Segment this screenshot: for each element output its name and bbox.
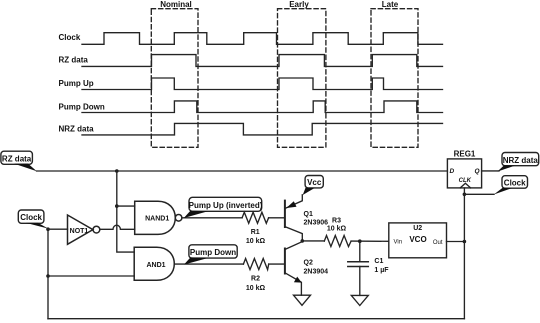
svg-text:Q2: Q2 (304, 259, 313, 266)
flip-flop REG1 box (447, 149, 481, 188)
and-gate AND1 (134, 247, 174, 280)
svg-text:2N3904: 2N3904 (304, 268, 329, 275)
svg-text:Late: Late (382, 0, 399, 9)
node junction R3/C1 (358, 239, 362, 243)
waveform Pump Down (82, 101, 443, 113)
svg-text:VCO: VCO (409, 235, 426, 244)
wire REG1 CLK vertical (463, 188, 465, 319)
node junction AND bottom branch (46, 274, 50, 278)
svg-text:C1: C1 (374, 258, 383, 265)
wire R2 to Q2 base (269, 263, 284, 265)
svg-text:RZ data: RZ data (2, 154, 32, 163)
wire R3 to VCO (351, 240, 389, 242)
svg-text:Clock: Clock (20, 213, 42, 222)
transistor Q1 2N3906 (285, 195, 328, 241)
waveform Pump Up (82, 78, 443, 90)
ground under C1 (351, 295, 368, 305)
capacitor C1 (348, 241, 389, 295)
wire feedback bottom (48, 318, 464, 320)
svg-text:2N3906: 2N3906 (304, 220, 329, 227)
svg-text:D: D (450, 168, 455, 175)
wire Clock vertical down (47, 229, 49, 319)
svg-text:Pump Up (inverted): Pump Up (inverted) (189, 201, 263, 210)
node junction RZ branch (115, 169, 119, 173)
wire NAND1 top input (117, 205, 135, 207)
callout label Vcc (303, 176, 324, 196)
nand-gate NAND1 (135, 201, 182, 234)
wire collectors to R3 (302, 240, 324, 242)
svg-text:10 kΩ: 10 kΩ (246, 238, 266, 245)
svg-text:RZ data: RZ data (59, 56, 89, 65)
svg-text:REG1: REG1 (454, 149, 476, 158)
callout label Clock (left) (18, 210, 48, 229)
callout label Pump Down (184, 245, 237, 265)
node junction collectors (301, 239, 305, 243)
svg-text:Clock: Clock (59, 33, 81, 42)
inverter NOT1 (68, 215, 100, 244)
svg-text:Vin: Vin (394, 240, 403, 246)
svg-text:NOT1: NOT1 (70, 228, 89, 235)
svg-text:AND1: AND1 (146, 262, 165, 269)
wire AND1 output to R2 (174, 263, 243, 265)
svg-text:R2: R2 (251, 275, 260, 282)
waveform NRZ data (82, 123, 443, 134)
svg-text:Q: Q (474, 168, 479, 175)
waveform Clock (82, 33, 443, 45)
wire R1 to Q1 base (269, 217, 284, 219)
svg-text:10 kΩ: 10 kΩ (246, 285, 266, 292)
wire RZ data net (horizontal to REG1 D) (37, 170, 448, 172)
wire clock tap to Clock callout (464, 193, 494, 195)
node junction clock tap (463, 193, 467, 197)
svg-text:Q1: Q1 (304, 211, 313, 218)
resistor R3 (324, 236, 351, 247)
dashed box Nominal (151, 9, 198, 148)
svg-text:R3: R3 (332, 217, 341, 224)
svg-text:1 µF: 1 µF (374, 267, 389, 274)
wire RZ vertical branch to gates (117, 171, 134, 252)
dashed box Late (371, 9, 418, 148)
node junction Clock (46, 227, 50, 231)
wire VCO out (447, 241, 465, 243)
svg-text:Clock: Clock (504, 178, 526, 187)
svg-text:Pump Down: Pump Down (59, 103, 105, 112)
svg-text:10 kΩ: 10 kΩ (327, 226, 347, 233)
node junction NAND top input (115, 204, 119, 208)
svg-text:Pump Up: Pump Up (59, 79, 94, 88)
wire NAND1 output to R1 (182, 217, 242, 219)
wire AND1 bottom input (48, 275, 134, 277)
waveform RZ data (82, 55, 443, 67)
resistor R1 (242, 212, 269, 223)
svg-text:U2: U2 (413, 225, 422, 232)
svg-text:NRZ data: NRZ data (59, 125, 95, 134)
svg-text:R1: R1 (251, 229, 260, 236)
svg-text:Out: Out (433, 240, 443, 246)
svg-text:Early: Early (289, 0, 309, 9)
callout label RZ data (1, 151, 37, 171)
svg-text:Nominal: Nominal (160, 0, 192, 9)
vco U2 box (389, 223, 447, 258)
node junction VCO out / feedback (463, 240, 467, 244)
transistor Q2 2N3904 (285, 241, 328, 295)
ground under Q2 (294, 295, 311, 305)
callout label Pump Up (inverted) (184, 197, 263, 218)
dashed box Early (278, 9, 326, 148)
callout label NRZ data (right) (497, 153, 538, 172)
callout label Clock (right) (494, 176, 528, 195)
resistor R2 (243, 259, 268, 270)
wire NOT1 output with hop over RZ branch (100, 225, 135, 229)
svg-text:Pump Down: Pump Down (190, 248, 236, 257)
wire REG1 Q output (482, 170, 499, 172)
wire Clock to NOT1 input (48, 228, 68, 230)
svg-text:NAND1: NAND1 (145, 215, 169, 222)
svg-text:NRZ data: NRZ data (503, 156, 539, 165)
svg-text:Vcc: Vcc (307, 178, 322, 187)
